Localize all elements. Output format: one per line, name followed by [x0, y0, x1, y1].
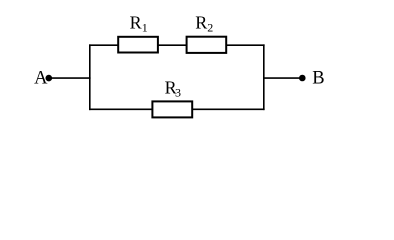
resistor R1: [118, 37, 158, 53]
wire: bottom rail: [89, 108, 265, 110]
label R1: [130, 13, 148, 35]
wire: top rail: [89, 44, 265, 46]
node B terminal dot: [299, 75, 306, 82]
resistor R3: [152, 101, 192, 117]
svg-text:B: B: [312, 69, 324, 89]
resistor R2: [187, 37, 227, 53]
svg-text:A: A: [34, 69, 48, 89]
svg-text:2: 2: [207, 21, 213, 35]
node A terminal dot: [46, 75, 53, 82]
svg-text:R: R: [195, 13, 207, 33]
wire: node A lead: [49, 77, 91, 79]
wire: node B lead: [263, 77, 302, 79]
label R3: [165, 78, 181, 100]
svg-text:3: 3: [175, 86, 181, 100]
wire: right vertical: [263, 44, 265, 110]
label R2: [195, 13, 213, 35]
svg-text:R: R: [130, 13, 142, 33]
svg-text:1: 1: [142, 21, 148, 35]
wire: left vertical: [89, 44, 91, 110]
